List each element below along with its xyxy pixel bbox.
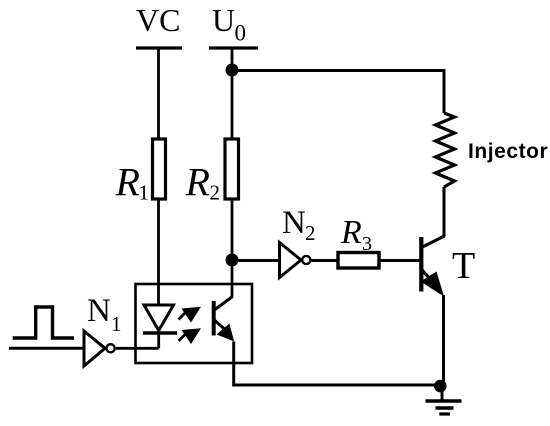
label R1	[115, 160, 150, 205]
wire node A to R2 top	[231, 70, 234, 139]
wire R3 to T base	[379, 259, 420, 262]
wire node A to injector top	[232, 71, 444, 114]
optocoupler LED D1	[143, 305, 177, 348]
wire injector to T collector	[443, 187, 446, 237]
svg-text:2: 2	[210, 181, 221, 205]
svg-text:0: 0	[235, 21, 247, 46]
wire node B to N2 input	[232, 259, 279, 262]
power terminal U0	[209, 2, 258, 48]
svg-text:R: R	[185, 160, 210, 205]
svg-text:1: 1	[139, 181, 150, 205]
wire N1 to optocoupler LED cathode	[116, 347, 159, 350]
svg-text:R: R	[115, 160, 140, 205]
label N1	[87, 293, 122, 336]
svg-text:Injector: Injector	[468, 140, 548, 163]
resistor R3	[338, 253, 379, 269]
label Injector	[468, 140, 548, 163]
resistor R2	[225, 139, 239, 199]
wire U0 bar to node A	[231, 48, 234, 70]
power terminal VC	[136, 2, 182, 48]
wire node B to phototransistor collector	[231, 260, 234, 297]
wire phototransistor emitter to ground rail	[234, 342, 440, 386]
transistor T	[421, 236, 445, 297]
svg-text:2: 2	[305, 221, 316, 245]
svg-text:R: R	[340, 214, 362, 251]
ground junction dot	[434, 380, 447, 393]
wire R2 to node B	[231, 199, 234, 260]
ground symbol	[426, 386, 462, 414]
wire input to N1	[9, 347, 84, 350]
wire R1 to optocoupler LED anode	[157, 199, 160, 305]
optocoupler light arrow 1	[179, 307, 202, 323]
resistor R1	[153, 139, 166, 199]
input pulse symbol	[13, 307, 74, 338]
wire VC bar to R1	[157, 48, 160, 139]
optocoupler phototransistor	[214, 297, 235, 342]
svg-text:1: 1	[111, 312, 122, 336]
label T	[452, 245, 475, 287]
wire N2 to R3	[311, 259, 337, 262]
svg-text:N: N	[87, 293, 111, 329]
optocoupler light arrow 2	[179, 328, 202, 344]
node A junction dot	[226, 64, 239, 77]
svg-text:VC: VC	[136, 2, 180, 38]
label N2	[282, 205, 316, 245]
injector load resistor	[436, 113, 455, 187]
node B junction dot	[226, 254, 239, 267]
optocoupler box	[136, 284, 253, 363]
inverter N1	[84, 331, 115, 366]
svg-text:3: 3	[362, 233, 372, 255]
svg-text:U: U	[212, 2, 235, 38]
svg-text:T: T	[452, 245, 475, 287]
svg-text:N: N	[282, 205, 306, 241]
label R3	[340, 214, 372, 255]
label R2	[185, 160, 221, 205]
wire T emitter to ground rail	[442, 295, 445, 385]
inverter N2	[280, 243, 311, 278]
